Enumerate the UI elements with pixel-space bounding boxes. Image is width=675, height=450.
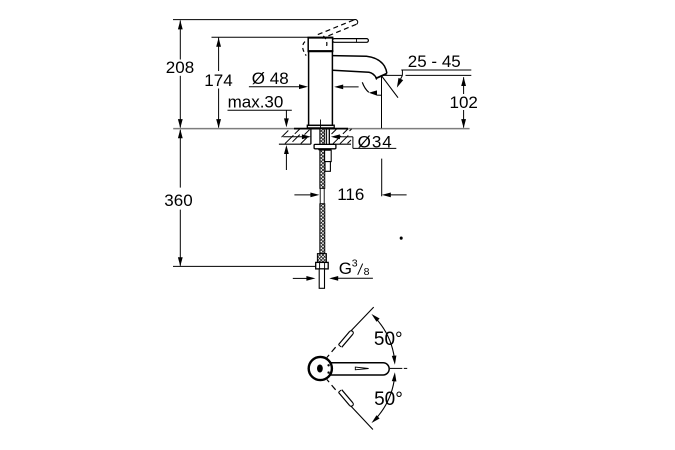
dimension O48 : right arrow [339, 86, 359, 88]
dimension 116 : arrows [294, 194, 311, 196]
svg-text:max.30: max.30 [228, 93, 284, 112]
faucet body column [309, 51, 333, 125]
lever arc inside head (dashed) [323, 36, 326, 49]
countertop underside edges [279, 143, 311, 145]
countertop hatching left [282, 131, 289, 138]
svg-text:50°: 50° [374, 389, 403, 410]
countertop cross-section top edge (black) [294, 128, 348, 130]
plan view: lever range dashed edges (lower 50 deg) [327, 380, 329, 383]
faucet cartridge head [308, 38, 332, 52]
stray speck [400, 237, 402, 239]
faucet base plate [307, 125, 334, 128]
lever swung left (dashed arc on head left) [303, 42, 307, 56]
dimension 208 : vertical line [179, 20, 181, 59]
plan view: upper 50deg arc [374, 317, 394, 359]
dimension 25-45 : leader arrow [400, 75, 403, 81]
dimension 174 : vertical line [218, 38, 220, 71]
spout outer curve [333, 56, 387, 74]
extension line: outlet vertical [381, 76, 383, 128]
dimension 208 : arrows [178, 20, 183, 29]
dimension 174 : arrows [216, 38, 221, 47]
dimension 360 : vertical line [179, 130, 181, 188]
plan view: lever raised-range dashed edges (upper 50 deg) [327, 355, 329, 358]
dimension O34 : arrows at shank [283, 136, 303, 138]
dimension G3/8 : arrows [293, 277, 308, 279]
dimension O34 : leader step + label [352, 137, 354, 149]
svg-text:Ø 48: Ø 48 [252, 69, 289, 88]
aerator flow axis diagonal [382, 77, 398, 98]
G3/8 nut [316, 262, 329, 269]
hose plain tube section at dim line [320, 188, 324, 203]
spout inner curve [333, 70, 377, 78]
dimension max.30 : up arrow below counter [284, 145, 289, 154]
plan view: lever slit detail [355, 367, 368, 370]
svg-text:102: 102 [450, 93, 478, 112]
lever handle (horizontal) [333, 39, 369, 43]
svg-text:116: 116 [337, 185, 364, 204]
svg-text:8: 8 [364, 266, 370, 278]
faucet centerline at base [320, 120, 322, 131]
svg-text:3: 3 [352, 257, 358, 269]
plan view: dash dots at circle edge [328, 364, 330, 366]
hose crimp sleeve [317, 254, 326, 263]
svg-text:360: 360 [164, 191, 192, 210]
plan view: 50deg reference diagonal (lower) [351, 406, 373, 430]
svg-text:Ø34: Ø34 [358, 132, 393, 151]
spout outlet face (aerator) [376, 73, 387, 78]
svg-text:174: 174 [204, 71, 232, 90]
G3/8 threaded tube [319, 269, 324, 288]
plan view: faucet body circle [309, 357, 332, 380]
plan view: 50deg reference diagonal (upper) [351, 307, 374, 331]
svg-text:G: G [339, 259, 352, 278]
hose fitting nipple [325, 150, 332, 161]
plan view: lower 50deg arc [374, 379, 394, 421]
lever handle raised (dashed) [318, 20, 354, 35]
extension line: hose end level [173, 265, 316, 267]
extension line below counter for 116 [381, 159, 383, 197]
plan view: aerator dot [317, 365, 323, 373]
extension line: body top level (174) [212, 36, 308, 38]
countertop hatching right [332, 129, 337, 134]
dimension 102 : vertical line + arrows [463, 77, 465, 94]
flexible hose (braided) upper [320, 129, 325, 189]
water flow arc arrow [362, 82, 369, 92]
flexible hose (braided) lower [320, 204, 325, 254]
dimension max.30 : down leader arrow to counter top [285, 110, 287, 120]
plan view: lever handle [325, 363, 389, 375]
svg-text:25 - 45: 25 - 45 [408, 52, 461, 71]
plan view: centerline [390, 367, 402, 369]
mounting shank below counter [310, 129, 312, 145]
extension line: overall height top (lever raised tip) [173, 19, 355, 21]
svg-text:50°: 50° [374, 329, 403, 350]
svg-text:208: 208 [166, 58, 194, 77]
mounting nut [314, 144, 336, 148]
countertop line (gray) [173, 128, 469, 130]
